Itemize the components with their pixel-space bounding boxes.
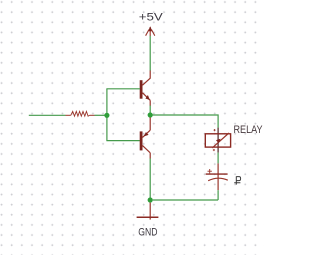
wire Q1 emitter to node <box>149 106 151 114</box>
wire base column vertical <box>106 89 108 141</box>
resistor R1 <box>66 111 95 116</box>
wire Q2 collector down <box>149 159 151 198</box>
wire relay to capacitor <box>217 153 219 164</box>
svg-text:+5V: +5V <box>139 12 164 24</box>
relay K1 <box>205 128 230 153</box>
wire capacitor to bottom wire <box>217 190 219 200</box>
wire resistor to node <box>95 114 107 116</box>
capacitor C1 (polarized) <box>206 163 228 190</box>
wire to Q2 base <box>106 140 139 142</box>
junction node left <box>104 113 109 118</box>
wire to Q1 base <box>106 88 139 90</box>
svg-text:GND: GND <box>138 227 157 239</box>
wire input left segment <box>29 114 66 116</box>
power +5V arrow symbol <box>146 26 155 36</box>
junction node middle <box>148 112 153 117</box>
junction node bottom <box>148 197 153 202</box>
svg-text:RELAY: RELAY <box>234 124 263 136</box>
relay label RELAY <box>234 124 263 136</box>
transistor Q1 (NPN) <box>140 71 151 106</box>
capacitor value label <box>234 176 240 184</box>
ground symbol <box>137 203 159 220</box>
transistor Q2 (PNP) <box>140 118 151 159</box>
power +5V label <box>139 12 164 24</box>
wire node to relay top <box>153 115 219 128</box>
wire +5V to Q1 collector <box>149 36 151 71</box>
wire bottom node to capacitor column <box>153 199 218 201</box>
ground label GND <box>138 227 157 239</box>
